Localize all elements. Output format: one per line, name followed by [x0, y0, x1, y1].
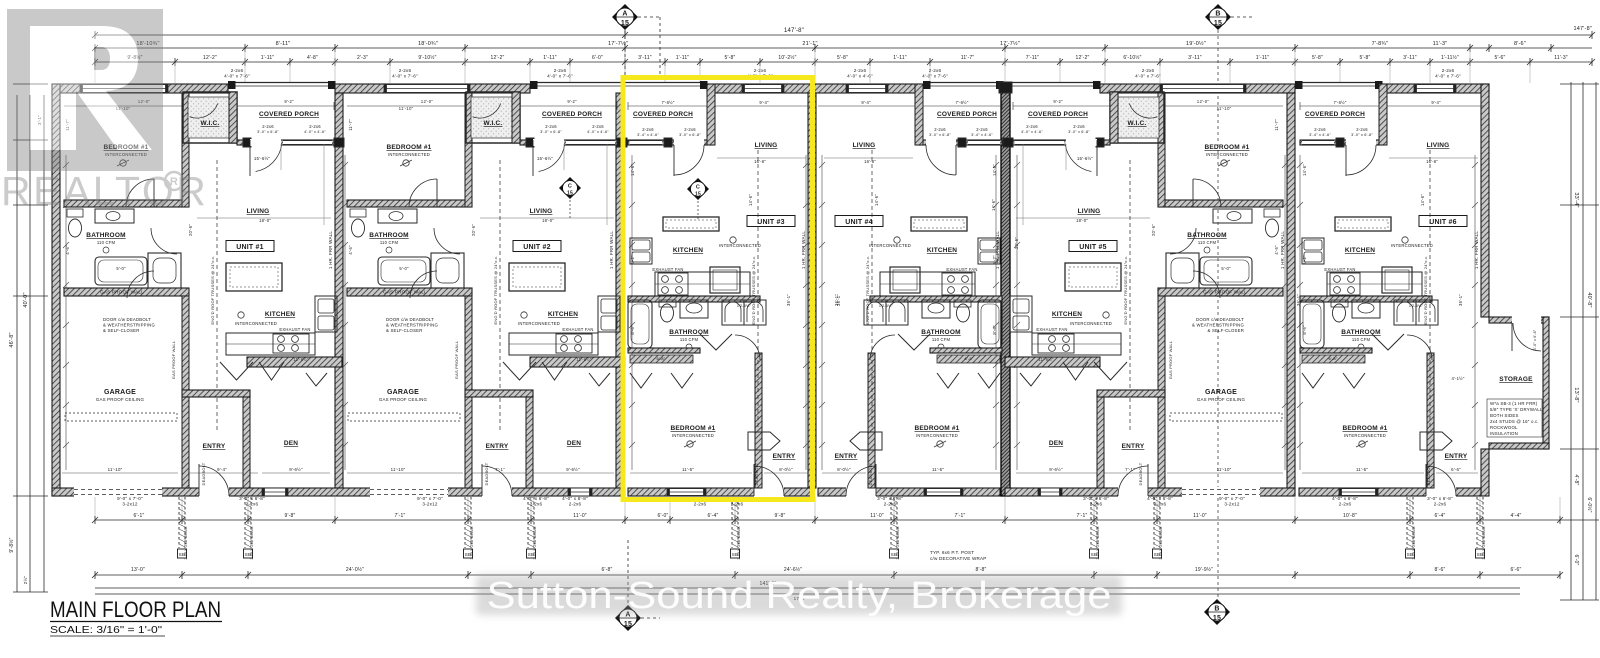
svg-text:W.I.C.: W.I.C. [484, 120, 503, 127]
marker leader dashed A top [624, 30, 626, 78]
svg-text:13'-0": 13'-0" [131, 567, 145, 573]
Sutton-Sound Realty watermark [476, 575, 1122, 617]
svg-text:21'-1": 21'-1" [802, 41, 817, 47]
svg-text:A: A [622, 11, 627, 18]
svg-text:3'-0" x 6'-8": 3'-0" x 6'-8" [877, 496, 903, 501]
svg-text:1'2-6½": 1'2-6½" [879, 304, 894, 308]
svg-text:11'-7": 11'-7" [961, 55, 975, 61]
svg-text:DEN: DEN [1049, 440, 1063, 447]
svg-text:EXHAUST FAN: EXHAUST FAN [946, 267, 977, 272]
svg-text:2-2x6: 2-2x6 [1442, 68, 1455, 73]
svg-text:INTERCONNECTED: INTERCONNECTED [1344, 433, 1386, 438]
svg-text:17'-7½": 17'-7½" [1000, 40, 1020, 47]
left dimension lines [8, 84, 48, 592]
svg-text:1 HR. FRR WALL: 1 HR. FRR WALL [328, 231, 333, 269]
svg-text:W.I.C.: W.I.C. [201, 120, 220, 127]
svg-text:12'-2": 12'-2" [1076, 55, 1090, 61]
svg-text:3'-4" x 4'-6": 3'-4" x 4'-6" [971, 133, 993, 137]
svg-text:5'-2": 5'-2" [992, 255, 997, 265]
misc rotated dims [621, 199, 1301, 306]
svg-text:18'-0": 18'-0" [542, 218, 554, 223]
svg-text:INTERCONNECTED: INTERCONNECTED [719, 243, 761, 248]
svg-text:ENG'D ROOF TRUSSES @ 24"o.c.: ENG'D ROOF TRUSSES @ 24"o.c. [210, 255, 215, 324]
svg-text:110 CFM: 110 CFM [932, 337, 951, 342]
svg-text:2-2x6: 2-2x6 [246, 502, 259, 507]
svg-text:4'-0" x 7'-6": 4'-0" x 7'-6" [922, 74, 948, 79]
svg-text:4'-0" x 7'-6": 4'-0" x 7'-6" [1435, 74, 1461, 79]
unit 4 plan [818, 84, 1002, 496]
1 HR FRR WALL labels [328, 231, 1479, 269]
svg-text:11'-6½": 11'-6½" [576, 357, 592, 362]
svg-text:2-2x6: 2-2x6 [569, 502, 582, 507]
storage room [1451, 316, 1549, 449]
svg-text:ENTRY: ENTRY [1445, 453, 1468, 460]
svg-text:UNIT #2: UNIT #2 [523, 244, 550, 251]
svg-text:6'-0½": 6'-0½" [1586, 497, 1593, 512]
svg-text:INTERCONNECTED: INTERCONNECTED [916, 433, 958, 438]
svg-text:STORAGE: STORAGE [1499, 376, 1533, 383]
svg-text:INTERCONNECTED: INTERCONNECTED [518, 321, 560, 326]
interior bottom dim line [62, 472, 1478, 474]
svg-text:COVERED PORCH: COVERED PORCH [633, 111, 693, 118]
svg-text:11'-0": 11'-0" [1193, 513, 1207, 519]
svg-text:2-2x6: 2-2x6 [1356, 127, 1368, 132]
svg-text:12'-0": 12'-0" [1197, 99, 1210, 104]
svg-text:36'-1": 36'-1" [786, 294, 791, 306]
bottom exterior walls [52, 488, 1481, 496]
svg-text:INSULATION: INSULATION [1490, 431, 1518, 436]
svg-text:LIVING: LIVING [1078, 208, 1101, 215]
svg-text:BATHROOM: BATHROOM [1187, 232, 1226, 239]
svg-text:2-2x6: 2-2x6 [1026, 124, 1038, 129]
svg-text:14'-6": 14'-6" [991, 199, 996, 211]
svg-text:14'-6": 14'-6" [1302, 164, 1307, 176]
witness lines bottom [95, 497, 1560, 518]
svg-text:3'-0" x 6'-8": 3'-0" x 6'-8" [1533, 329, 1537, 350]
REALTOR watermark logo [7, 9, 163, 171]
svg-text:110 CFM: 110 CFM [680, 337, 699, 342]
svg-text:11'-5": 11'-5" [932, 467, 944, 472]
svg-text:2-2x6: 2-2x6 [1339, 502, 1352, 507]
svg-text:GARAGE: GARAGE [1205, 389, 1237, 396]
svg-text:12'-2": 12'-2" [491, 55, 505, 61]
marker leader dashed B top [1217, 30, 1219, 598]
svg-text:GAS PROOF WALL: GAS PROOF WALL [1203, 290, 1247, 295]
svg-text:1 HR. FRR WALL: 1 HR. FRR WALL [801, 231, 806, 269]
svg-text:6'-6": 6'-6" [1511, 567, 1522, 573]
svg-text:GARAGE: GARAGE [387, 389, 419, 396]
svg-text:2-2x6: 2-2x6 [399, 68, 412, 73]
window header labels [224, 68, 1461, 79]
svg-text:GARAGE: GARAGE [104, 389, 136, 396]
svg-text:W.I.C.: W.I.C. [1128, 120, 1147, 127]
svg-text:4'-0" x 7'-6": 4'-0" x 7'-6" [224, 74, 250, 79]
svg-text:24'-6½": 24'-6½" [784, 566, 802, 573]
svg-text:24'-0½": 24'-0½" [346, 566, 364, 573]
svg-text:COVERED PORCH: COVERED PORCH [1305, 111, 1365, 118]
svg-text:5'-8": 5'-8" [837, 55, 848, 61]
section marker A/15 top [612, 4, 638, 30]
svg-text:5'-0": 5'-0" [116, 266, 126, 271]
svg-text:INTERCONNECTED: INTERCONNECTED [1206, 152, 1248, 157]
svg-text:ENG'D ROOF TRUSSES @ 24"o.c.: ENG'D ROOF TRUSSES @ 24"o.c. [751, 255, 756, 324]
svg-text:14'-6": 14'-6" [992, 164, 997, 176]
svg-text:4'-0" x 7'-6": 4'-0" x 7'-6" [1135, 74, 1161, 79]
svg-text:ENG'D ROOF TRUSSES @ 24"o.c.: ENG'D ROOF TRUSSES @ 24"o.c. [1123, 255, 1128, 324]
svg-text:GAS PROOF CEILING: GAS PROOF CEILING [96, 397, 145, 402]
svg-text:18'-0": 18'-0" [1076, 218, 1088, 223]
firewall U4/U5 [999, 82, 1012, 496]
svg-text:COVERED PORCH: COVERED PORCH [937, 111, 997, 118]
svg-text:18'-0¾": 18'-0¾" [418, 41, 438, 47]
svg-text:INTERCONNECTED: INTERCONNECTED [235, 321, 277, 326]
svg-text:9'-2": 9'-2" [1053, 99, 1063, 104]
svg-text:2-2x6: 2-2x6 [262, 124, 274, 129]
svg-text:3'-0" x 6'-8": 3'-0" x 6'-8" [1068, 130, 1090, 134]
svg-text:2x4 STUDS @ 16" o.c.: 2x4 STUDS @ 16" o.c. [1490, 419, 1539, 424]
svg-text:UNIT #6: UNIT #6 [1429, 219, 1456, 226]
svg-text:9'-4": 9'-4" [861, 100, 871, 105]
svg-text:BATHROOM: BATHROOM [669, 329, 708, 336]
svg-text:LIVING: LIVING [853, 142, 876, 149]
svg-text:2 PLY 2x8 BEAM: 2 PLY 2x8 BEAM [469, 526, 474, 559]
svg-text:9'-4": 9'-4" [759, 100, 769, 105]
svg-text:6'-8": 6'-8" [1329, 356, 1338, 361]
svg-text:5'-6": 5'-6" [1495, 55, 1506, 61]
svg-text:3'-0" x 6'-8": 3'-0" x 6'-8" [257, 130, 279, 134]
svg-text:4'-0" x 6'-8": 4'-0" x 6'-8" [1332, 496, 1358, 501]
svg-text:1'-11": 1'-11" [676, 55, 690, 61]
svg-text:19'-9½": 19'-9½" [1195, 566, 1213, 573]
svg-text:c/w DECORATIVE WRAP: c/w DECORATIVE WRAP [930, 556, 987, 561]
svg-text:2 PLY 2x8 BEAM: 2 PLY 2x8 BEAM [1411, 526, 1416, 559]
svg-text:2 PLY 2x8 BEAM: 2 PLY 2x8 BEAM [249, 526, 254, 559]
svg-text:UNIT #3: UNIT #3 [757, 219, 784, 226]
svg-text:BATHROOM: BATHROOM [921, 329, 960, 336]
svg-text:KITCHEN: KITCHEN [1052, 311, 1082, 318]
top exterior wall [52, 83, 1489, 94]
interior bottom dim labels [108, 467, 1461, 472]
svg-text:& WEATHERSTRIPPING: & WEATHERSTRIPPING [1192, 323, 1244, 328]
svg-text:2-2x6: 2-2x6 [642, 127, 654, 132]
svg-text:14'-6": 14'-6" [1420, 194, 1425, 206]
svg-text:20'-6": 20'-6" [471, 224, 476, 236]
svg-text:2-2x6: 2-2x6 [1073, 124, 1085, 129]
svg-text:4'-8": 4'-8" [1573, 475, 1579, 486]
svg-text:7'-6½": 7'-6½" [1333, 100, 1346, 105]
svg-text:11'-10": 11'-10" [399, 106, 414, 111]
svg-text:C: C [696, 185, 700, 191]
svg-text:15'-6½": 15'-6½" [1077, 156, 1093, 161]
svg-text:11'-7": 11'-7" [1274, 119, 1279, 131]
svg-text:46'-8": 46'-8" [9, 332, 15, 347]
svg-text:ENG'D ROOF TRUSSES @ 24"o.c.: ENG'D ROOF TRUSSES @ 24"o.c. [1423, 255, 1428, 324]
svg-text:BEDROOM #1: BEDROOM #1 [915, 425, 960, 432]
section marker B/15 top [1205, 4, 1231, 30]
svg-text:1'-11": 1'-11" [543, 55, 557, 61]
svg-text:B: B [1214, 606, 1219, 613]
svg-text:11'-6½": 11'-6½" [1038, 357, 1054, 362]
svg-text:9'-4": 9'-4" [1431, 100, 1441, 105]
svg-text:COVERED PORCH: COVERED PORCH [1028, 111, 1088, 118]
svg-text:6'-0": 6'-0" [592, 55, 603, 61]
yellow highlight box unit 3 [623, 78, 813, 500]
svg-text:6'-0": 6'-0" [658, 513, 669, 519]
svg-text:1'-11": 1'-11" [1256, 55, 1270, 61]
svg-text:4'-6": 4'-6" [65, 245, 70, 255]
svg-text:UNIT #5: UNIT #5 [1079, 244, 1106, 251]
svg-text:DEN: DEN [567, 440, 581, 447]
svg-text:2-2x6: 2-2x6 [1314, 127, 1326, 132]
svg-text:12'-2": 12'-2" [203, 55, 217, 61]
svg-text:9'-8": 9'-8" [775, 513, 786, 519]
svg-text:5/8" TYPE 'X' DRYWALL: 5/8" TYPE 'X' DRYWALL [1490, 407, 1543, 412]
svg-text:ENTRY: ENTRY [203, 443, 226, 450]
svg-text:ENTRY: ENTRY [486, 443, 509, 450]
svg-text:11'-10": 11'-10" [391, 467, 406, 472]
svg-text:4'-0" x 7'-6": 4'-0" x 7'-6" [547, 74, 573, 79]
svg-text:UNIT #4: UNIT #4 [845, 219, 872, 226]
svg-text:16'-6": 16'-6" [864, 159, 876, 164]
svg-text:3-2x12: 3-2x12 [122, 502, 137, 507]
beam posts and SB markers [178, 497, 1487, 561]
svg-text:BOTH SIDES: BOTH SIDES [1490, 413, 1519, 418]
svg-text:12'-0": 12'-0" [421, 99, 434, 104]
svg-text:EXHAUST FAN: EXHAUST FAN [1036, 327, 1067, 332]
svg-text:4'-0" x 4'-6": 4'-0" x 4'-6" [847, 74, 873, 79]
svg-text:7'-1": 7'-1" [955, 513, 966, 519]
svg-text:3'-11": 3'-11" [638, 55, 652, 61]
svg-text:INTERCONNECTED: INTERCONNECTED [869, 243, 911, 248]
svg-text:4'-0" x 7'-6": 4'-0" x 7'-6" [392, 74, 418, 79]
svg-text:2-2x6: 2-2x6 [592, 124, 604, 129]
svg-text:& WEATHERSTRIPPING: & WEATHERSTRIPPING [103, 323, 155, 328]
svg-text:110 CFM: 110 CFM [1198, 240, 1217, 245]
svg-text:BATHROOM: BATHROOM [1341, 329, 1380, 336]
svg-text:20'-6": 20'-6" [1151, 224, 1156, 236]
svg-text:3'-4" x 4'-6": 3'-4" x 4'-6" [1309, 133, 1331, 137]
svg-text:8'-8": 8'-8" [976, 567, 987, 573]
svg-text:1 HR. FRR WALL: 1 HR. FRR WALL [1280, 231, 1285, 269]
party wall U1/U2 [335, 93, 343, 488]
svg-text:8'-0½": 8'-0½" [779, 467, 793, 472]
svg-text:2-2x6: 2-2x6 [854, 68, 867, 73]
unit 1 plan [64, 92, 344, 497]
svg-text:4'-0" x 6'-8": 4'-0" x 6'-8" [562, 496, 588, 501]
svg-text:5'-8": 5'-8" [1360, 55, 1371, 61]
svg-text:11'-5": 11'-5" [1356, 467, 1368, 472]
svg-text:ENTRY: ENTRY [773, 453, 796, 460]
svg-text:5'-2": 5'-2" [1302, 255, 1307, 265]
svg-text:KITCHEN: KITCHEN [1345, 247, 1375, 254]
svg-text:LIVING: LIVING [755, 142, 778, 149]
svg-text:2-2x6: 2-2x6 [1434, 502, 1447, 507]
svg-text:3'-0" x 6'-8": 3'-0" x 6'-8" [239, 496, 265, 501]
svg-text:11'-3": 11'-3" [1554, 55, 1568, 61]
svg-text:14'-6": 14'-6" [630, 164, 635, 176]
svg-text:DOOR c/w DEADBOLT: DOOR c/w DEADBOLT [1196, 317, 1244, 322]
svg-text:16'-6": 16'-6" [1426, 159, 1438, 164]
svg-text:DEN: DEN [284, 440, 298, 447]
svg-text:COVERED PORCH: COVERED PORCH [542, 111, 602, 118]
svg-text:1'2-6½": 1'2-6½" [1409, 304, 1424, 308]
svg-text:9'-10½": 9'-10½" [418, 54, 436, 61]
svg-text:110 CFM: 110 CFM [380, 240, 399, 245]
svg-text:36'-1": 36'-1" [1458, 294, 1463, 306]
svg-text:4'-0" x 4'-6": 4'-0" x 4'-6" [587, 130, 609, 134]
svg-text:2-2x6: 2-2x6 [976, 127, 988, 132]
svg-text:DOOR c/w DEADBOLT: DOOR c/w DEADBOLT [103, 317, 151, 322]
svg-text:7'-11": 7'-11" [1026, 55, 1040, 61]
svg-text:8'-6": 8'-6" [1514, 41, 1526, 47]
svg-text:6'-4": 6'-4" [708, 513, 719, 519]
svg-text:5'-0": 5'-0" [399, 266, 409, 271]
svg-text:9'-8": 9'-8" [285, 513, 296, 519]
svg-text:3'-0" x 6'-8": 3'-0" x 6'-8" [679, 133, 701, 137]
svg-text:2-2x6: 2-2x6 [694, 502, 707, 507]
svg-text:R: R [170, 176, 178, 188]
svg-text:8'-0½": 8'-0½" [837, 467, 851, 472]
svg-text:LIVING: LIVING [530, 208, 553, 215]
svg-text:2-2x6: 2-2x6 [309, 124, 321, 129]
svg-text:LIVING: LIVING [247, 208, 270, 215]
section marker B/15 bottom [1204, 599, 1230, 625]
svg-text:147'-8": 147'-8" [1574, 26, 1592, 32]
svg-text:40'-8": 40'-8" [1586, 292, 1592, 307]
svg-text:TYP. 6x6 P.T. POST: TYP. 6x6 P.T. POST [930, 550, 974, 555]
svg-text:COVERED PORCH: COVERED PORCH [259, 111, 319, 118]
svg-text:8'-6": 8'-6" [992, 325, 997, 335]
svg-text:KITCHEN: KITCHEN [265, 311, 295, 318]
svg-text:20'-6": 20'-6" [188, 224, 193, 236]
svg-text:5'-2": 5'-2" [630, 255, 635, 265]
svg-text:& SELF-CLOSER: & SELF-CLOSER [103, 328, 140, 333]
svg-text:4'-8": 4'-8" [307, 55, 318, 61]
svg-text:EXHAUST FAN: EXHAUST FAN [279, 327, 310, 332]
left exterior wall [52, 84, 60, 496]
svg-text:2'-3": 2'-3" [357, 55, 368, 61]
svg-text:DEADBOLT: DEADBOLT [1138, 462, 1143, 485]
svg-text:4'-0" x 4'-6": 4'-0" x 4'-6" [304, 130, 326, 134]
svg-text:INTERCONNECTED: INTERCONNECTED [1391, 243, 1433, 248]
svg-text:ENTRY: ENTRY [835, 453, 858, 460]
svg-text:2 PLY 2x8 BEAM: 2 PLY 2x8 BEAM [895, 526, 900, 559]
svg-text:7'-6½": 7'-6½" [661, 100, 674, 105]
svg-text:LIVING: LIVING [1427, 142, 1450, 149]
party wall U5/U6 [1287, 93, 1295, 488]
MAIN FLOOR PLAN title [50, 597, 222, 636]
svg-text:3'-11": 3'-11" [1403, 55, 1417, 61]
svg-text:9'-8½": 9'-8½" [8, 537, 15, 552]
witness lines top [95, 49, 1530, 83]
svg-text:2-2x6: 2-2x6 [1142, 68, 1155, 73]
marker leader dashed A bottom [627, 540, 629, 605]
bottom dimension lines [92, 513, 1563, 601]
svg-text:BATHROOM: BATHROOM [86, 232, 125, 239]
svg-text:11'-7": 11'-7" [348, 119, 353, 131]
svg-text:5'-8": 5'-8" [725, 55, 736, 61]
unit 5 plan [1003, 92, 1283, 497]
svg-text:EXHAUST FAN: EXHAUST FAN [562, 327, 593, 332]
svg-text:BEDROOM #1: BEDROOM #1 [671, 425, 716, 432]
svg-text:GAS PROOF CEILING: GAS PROOF CEILING [379, 397, 428, 402]
svg-text:18'-0": 18'-0" [259, 218, 271, 223]
svg-text:2-2x6: 2-2x6 [545, 124, 557, 129]
svg-text:16'-6": 16'-6" [754, 159, 766, 164]
svg-text:3-2x12: 3-2x12 [422, 502, 437, 507]
svg-text:11'-6½": 11'-6½" [293, 357, 309, 362]
svg-text:11'-0": 11'-0" [573, 513, 587, 519]
svg-text:ENTRY: ENTRY [1122, 443, 1145, 450]
svg-text:5'-8": 5'-8" [1312, 55, 1323, 61]
svg-text:2 PLY 2x8 BEAM: 2 PLY 2x8 BEAM [736, 526, 741, 559]
svg-text:4'-6": 4'-6" [348, 245, 353, 255]
svg-text:13'-8": 13'-8" [1573, 387, 1579, 402]
svg-text:6'-10½": 6'-10½" [1123, 54, 1141, 61]
svg-text:INTERCONNECTED: INTERCONNECTED [1070, 321, 1112, 326]
svg-text:& SELF-CLOSER: & SELF-CLOSER [386, 328, 423, 333]
svg-text:2-2x6: 2-2x6 [231, 68, 244, 73]
svg-text:DEADBOLT: DEADBOLT [484, 462, 489, 485]
svg-text:9'-6½": 9'-6½" [1049, 467, 1063, 472]
svg-text:4'-4": 4'-4" [1511, 513, 1522, 519]
svg-text:GAS PROOF WALL: GAS PROOF WALL [100, 290, 144, 295]
svg-text:15: 15 [624, 621, 632, 628]
svg-text:9'-2": 9'-2" [567, 99, 577, 104]
svg-text:2-2x6: 2-2x6 [934, 127, 946, 132]
svg-text:11'-10": 11'-10" [1217, 106, 1232, 111]
svg-text:110 CFM: 110 CFM [1352, 337, 1371, 342]
svg-text:7'-8¾": 7'-8¾" [1372, 41, 1389, 47]
svg-text:2-2x6: 2-2x6 [554, 68, 567, 73]
svg-text:REALTOR: REALTOR [1, 168, 208, 214]
svg-text:3'-0" x 6'-8": 3'-0" x 6'-8" [1351, 133, 1373, 137]
svg-text:GAS PROOF WALL: GAS PROOF WALL [171, 340, 176, 379]
svg-text:15'-6½": 15'-6½" [537, 156, 553, 161]
svg-text:EXHAUST FAN: EXHAUST FAN [1324, 267, 1355, 272]
right dimension lines [1560, 82, 1599, 600]
svg-text:MAIN FLOOR PLAN: MAIN FLOOR PLAN [50, 597, 221, 622]
svg-text:3-2x12: 3-2x12 [1224, 502, 1239, 507]
svg-text:11'-5": 11'-5" [682, 467, 694, 472]
svg-text:2 PLY 2x8 BEAM: 2 PLY 2x8 BEAM [532, 526, 537, 559]
svg-text:GAS PROOF WALL: GAS PROOF WALL [454, 340, 459, 379]
svg-text:15: 15 [1213, 615, 1221, 622]
svg-text:15'-6½": 15'-6½" [254, 156, 270, 161]
svg-text:36'-1": 36'-1" [836, 294, 841, 306]
svg-text:4'-6": 4'-6" [1274, 245, 1279, 255]
svg-text:11'-3": 11'-3" [1433, 41, 1448, 47]
svg-text:BATHROOM: BATHROOM [369, 232, 408, 239]
svg-text:DEADBOLT: DEADBOLT [201, 462, 206, 485]
svg-text:2½": 2½" [22, 576, 28, 585]
unit 6 plan [1300, 84, 1484, 496]
svg-text:B: B [1215, 11, 1220, 18]
svg-text:14'-6": 14'-6" [748, 194, 753, 206]
svg-text:15: 15 [695, 192, 701, 198]
svg-text:W*a SB-3 (1 HR FRR): W*a SB-3 (1 HR FRR) [1490, 401, 1538, 406]
party wall U3/U4 [808, 93, 816, 488]
svg-text:EXHAUST FAN: EXHAUST FAN [652, 267, 683, 272]
svg-text:15: 15 [567, 191, 573, 197]
svg-text:9'-2": 9'-2" [284, 99, 294, 104]
svg-text:ENG'D ROOF TRUSSES @ 24"o.c.: ENG'D ROOF TRUSSES @ 24"o.c. [493, 255, 498, 324]
svg-text:6'-4": 6'-4" [1435, 513, 1446, 519]
svg-text:3'-0" x 6'-8": 3'-0" x 6'-8" [540, 130, 562, 134]
svg-text:GAS PROOF WALL: GAS PROOF WALL [1168, 340, 1173, 379]
svg-text:9'-6½": 9'-6½" [566, 467, 580, 472]
svg-text:INTERCONNECTED: INTERCONNECTED [388, 152, 430, 157]
